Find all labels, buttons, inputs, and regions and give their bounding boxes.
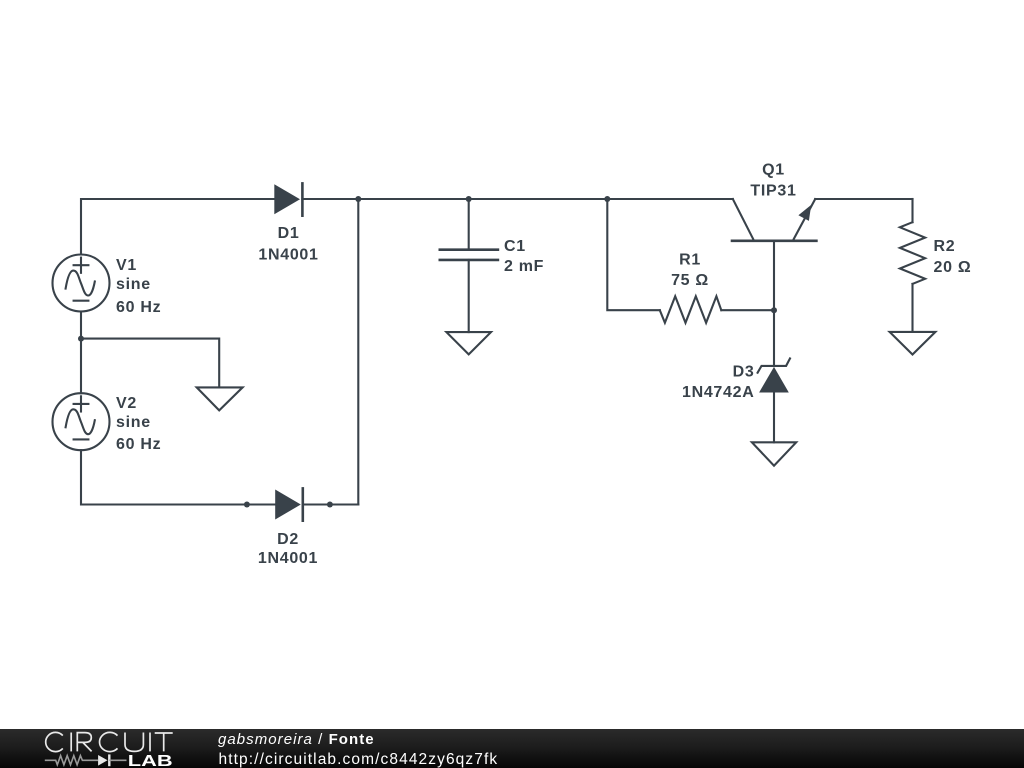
wire Q1 emitter to R2 bbox=[815, 198, 912, 200]
node junction dot C1 top bbox=[466, 196, 472, 202]
logo resistor squiggle bbox=[45, 756, 98, 765]
svg-text:http://circuitlab.com/c8442zy6: http://circuitlab.com/c8442zy6qz7fk bbox=[219, 751, 499, 768]
wire center node to V2 top bbox=[80, 339, 82, 394]
node junction dot between V1 and V2 bbox=[78, 336, 84, 342]
svg-text:C1: C1 bbox=[504, 238, 526, 255]
ground G3 below R2 bbox=[890, 332, 936, 355]
svg-text:D1: D1 bbox=[278, 225, 300, 242]
svg-text:Q1: Q1 bbox=[762, 162, 785, 179]
svg-text:R2: R2 bbox=[934, 238, 956, 255]
diode D2 bbox=[275, 488, 303, 520]
ground G4 below D3 bbox=[752, 442, 796, 465]
logo CIRCUIT wordmark bbox=[46, 732, 173, 751]
svg-text:gabsmoreira / Fonte: gabsmoreira / Fonte bbox=[218, 731, 375, 748]
svg-text:60 Hz: 60 Hz bbox=[116, 299, 161, 316]
wire V1 top to D1 anode bbox=[81, 199, 274, 255]
voltage source V1 bbox=[53, 255, 110, 312]
wire node to C1 top node bbox=[358, 198, 468, 200]
node junction dot right of D2 bbox=[327, 502, 333, 508]
svg-text:1N4742A: 1N4742A bbox=[682, 384, 755, 401]
wire D2 cathode to node bbox=[303, 503, 330, 505]
wire V1 bottom to center node bbox=[80, 312, 82, 339]
wire V2 bottom to lower rail bbox=[81, 450, 247, 504]
svg-text:sine: sine bbox=[116, 276, 151, 293]
wire D1 cathode to node bbox=[302, 198, 358, 200]
resistor R2 bbox=[900, 222, 925, 284]
svg-text:R1: R1 bbox=[679, 252, 701, 269]
wire center node to ground G1 bbox=[81, 339, 219, 388]
svg-text:V2: V2 bbox=[116, 395, 137, 412]
svg-text:75 Ω: 75 Ω bbox=[671, 272, 709, 289]
svg-text:1N4001: 1N4001 bbox=[258, 247, 318, 264]
svg-text:1N4001: 1N4001 bbox=[258, 550, 318, 567]
svg-text:sine: sine bbox=[116, 414, 151, 431]
wire R1 right lead to base node bbox=[721, 309, 774, 311]
wire D2 node to right vertical bbox=[330, 503, 358, 505]
ground G1 bbox=[197, 387, 243, 410]
node junction dot base / zener bbox=[771, 307, 777, 313]
capacitor C1 bbox=[440, 199, 498, 332]
footer bar bbox=[0, 729, 1024, 768]
transistor Q1 bbox=[732, 199, 816, 310]
wire base node to D3 cathode bbox=[773, 310, 775, 366]
resistor R1 bbox=[660, 296, 722, 323]
wire node to D2 anode bbox=[247, 503, 275, 505]
svg-text:D2: D2 bbox=[277, 531, 299, 548]
diode D1 bbox=[274, 183, 302, 215]
wire C1 node to R1 branch node bbox=[469, 198, 608, 200]
svg-text:20 Ω: 20 Ω bbox=[934, 259, 972, 276]
wire right vertical D1 node down to D2 output bbox=[357, 199, 359, 505]
wire R2 top lead bbox=[911, 199, 913, 222]
node junction dot left of D2 bbox=[244, 502, 250, 508]
svg-text:V1: V1 bbox=[116, 257, 137, 274]
wire R1 branch down and left lead bbox=[607, 199, 660, 310]
svg-text:LAB: LAB bbox=[128, 753, 173, 768]
wire R2 bottom lead bbox=[911, 284, 913, 332]
node junction dot R1 branch bbox=[604, 196, 610, 202]
logo diode symbol bbox=[98, 754, 126, 766]
wire R1 node to Q1 collector bbox=[607, 198, 733, 200]
ground G2 below C1 bbox=[446, 332, 491, 354]
svg-text:2 mF: 2 mF bbox=[504, 258, 544, 275]
svg-text:D3: D3 bbox=[733, 364, 755, 381]
svg-text:60 Hz: 60 Hz bbox=[116, 436, 161, 453]
voltage source V2 bbox=[53, 393, 110, 450]
node junction dot D1 output bbox=[355, 196, 361, 202]
zener diode D3 bbox=[758, 358, 790, 442]
svg-text:TIP31: TIP31 bbox=[750, 183, 796, 200]
